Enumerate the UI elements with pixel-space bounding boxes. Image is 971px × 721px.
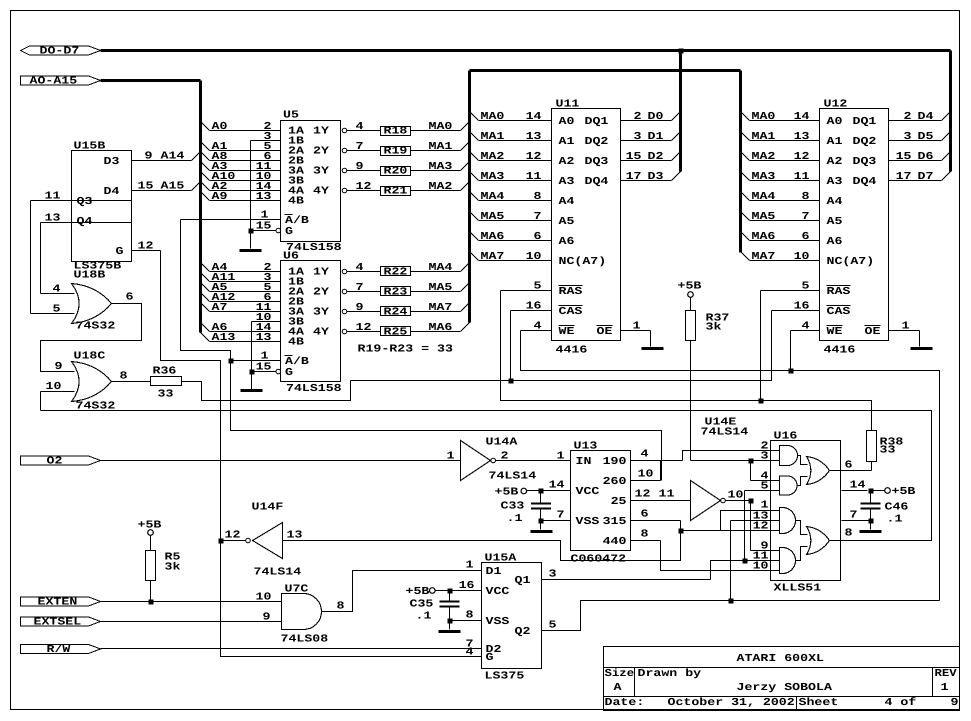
bus flag DO-D7 [21, 46, 101, 58]
wire U11 MA7 pin 10 [470, 251, 552, 263]
wire C46 ground stem [870, 521, 872, 530]
wire R18 to MA bus MA0 [411, 121, 470, 133]
svg-text:R20: R20 [384, 166, 408, 178]
wire U5 input A8 pin 6 [201, 151, 281, 163]
svg-text:6: 6 [802, 231, 810, 243]
svg-text:.1: .1 [887, 514, 903, 526]
wire R25 to MA bus MA6 [411, 322, 470, 334]
wire AND C to OR F [796, 521, 808, 535]
power +5B R5 [138, 520, 163, 536]
wire R24 to MA bus MA7 [411, 302, 470, 314]
wire R36 to CAS line [182, 381, 351, 401]
wire U12 MA3 pin 11 [741, 171, 820, 183]
svg-text:CAS: CAS [559, 306, 584, 318]
node WE junction U12 [789, 369, 794, 374]
wire U6 input A4 pin 2 [201, 262, 281, 274]
wire U11 DQ2 to D1 [621, 131, 681, 143]
svg-text:MA1: MA1 [752, 131, 776, 143]
wire U15A Q2 pin 5 [542, 601, 940, 632]
resistor R19 [381, 146, 411, 158]
svg-text:12: 12 [635, 489, 651, 501]
svg-text:XLLS51: XLLS51 [774, 583, 822, 595]
svg-text:440: 440 [603, 536, 627, 548]
wire U11 MA1 pin 13 [470, 131, 552, 143]
wire U15B D4 to A15 [132, 181, 200, 193]
svg-text:A0: A0 [559, 116, 575, 128]
svg-text:Date:: Date: [605, 697, 645, 709]
svg-text:MA3: MA3 [481, 171, 505, 183]
svg-text:D6: D6 [918, 151, 934, 163]
capacitor C46 [861, 491, 909, 526]
wire R37 to XLLS51 pin3 [690, 341, 692, 461]
wire R21 to MA bus MA2 [411, 181, 470, 193]
wire pin1 net to U13 [231, 361, 662, 481]
svg-text:MA5: MA5 [481, 211, 505, 223]
wire U5 output 12 to R21 [342, 181, 380, 193]
wire D bus vertical left [679, 51, 682, 172]
inverter U14F [225, 502, 303, 579]
svg-text:33: 33 [880, 445, 896, 457]
svg-text:11: 11 [45, 191, 61, 203]
svg-text:A5: A5 [559, 216, 575, 228]
ground C33 [531, 530, 553, 533]
capacitor C33 [501, 491, 552, 526]
wire U18C pin10 input [41, 381, 75, 411]
wire XLLS51 pin5 [745, 481, 780, 561]
wire R19 to MA bus MA1 [411, 141, 470, 153]
svg-text:8: 8 [120, 371, 128, 383]
ground U12 OE [911, 347, 933, 350]
svg-text:3k: 3k [706, 322, 723, 334]
wire XLLS51 pin12 [681, 521, 780, 533]
svg-text:MA6: MA6 [429, 322, 453, 334]
wire U11 DQ1 to D0 [621, 111, 681, 123]
svg-text:+5B: +5B [406, 586, 431, 598]
node G net junction at U14F [219, 539, 224, 544]
svg-text:9: 9 [55, 361, 63, 373]
svg-text:R19: R19 [384, 146, 408, 158]
svg-text:12: 12 [526, 151, 542, 163]
svg-text:260: 260 [603, 476, 627, 488]
wire U11 DQ3 to D2 [621, 151, 681, 163]
svg-text:MA4: MA4 [752, 191, 777, 203]
svg-text:1: 1 [557, 451, 565, 463]
wire U12 WE pin 4 [791, 321, 820, 333]
wire U16 pin14 [842, 480, 874, 494]
wire U14E out to XLLS51 pins [751, 500, 780, 553]
latch U15B [72, 141, 132, 273]
svg-text:1: 1 [941, 682, 949, 694]
ground C46 [860, 530, 882, 533]
svg-text:D5: D5 [918, 131, 934, 143]
svg-text:74S32: 74S32 [76, 321, 116, 333]
wire U5 input A10 pin 10 [201, 171, 281, 183]
wire U12 WE drop [790, 331, 792, 371]
svg-text:U12: U12 [824, 99, 848, 111]
resistor R18 [381, 126, 411, 138]
wire U16 pin8 out [830, 528, 853, 541]
wire U12 OE pin 1 [889, 321, 920, 347]
svg-text:7: 7 [356, 141, 364, 153]
wire U11 MA4 pin 8 [470, 191, 552, 203]
wire U6 A/B pin 1 [231, 351, 281, 363]
svg-text:15: 15 [138, 181, 154, 193]
svg-text:D3: D3 [104, 156, 120, 168]
svg-text:A4: A4 [559, 196, 576, 208]
svg-text:14: 14 [794, 111, 811, 123]
svg-text:10: 10 [638, 469, 654, 481]
and-gate U7C [281, 584, 329, 646]
wire U5 input A3 pin 11 [201, 161, 281, 173]
svg-text:2Y: 2Y [313, 286, 330, 298]
ground C35 [439, 630, 461, 633]
wire U14A out to U13 [496, 451, 571, 463]
wire U6 input A11 pin 3 [201, 272, 281, 284]
wire U12 RAS drop [760, 291, 762, 401]
latch U15A [482, 553, 542, 683]
svg-text:C060472: C060472 [571, 554, 627, 566]
svg-text:A3: A3 [827, 176, 843, 188]
svg-text:R36: R36 [153, 366, 177, 378]
wire U6 input A5 pin 5 [201, 282, 281, 294]
svg-text:O2: O2 [47, 456, 63, 468]
svg-text:74LS14: 74LS14 [489, 471, 537, 483]
wire C35 ground stem [449, 621, 451, 630]
wire XLLS51 pin3 [691, 451, 780, 464]
resistor R38 [867, 431, 904, 462]
ground U5 [240, 249, 262, 252]
inverter U14A [461, 437, 537, 483]
gate-array U16 XLLS51 [771, 431, 841, 595]
svg-text:VCC: VCC [486, 586, 511, 598]
svg-text:A9: A9 [212, 191, 228, 203]
wire U11 MA2 pin 12 [470, 151, 552, 163]
node D-bus junction at x=680 [679, 49, 684, 54]
svg-text:G: G [486, 652, 494, 664]
svg-text:MA3: MA3 [429, 161, 453, 173]
svg-text:R25: R25 [384, 327, 408, 339]
wire U12 MA4 pin 8 [741, 191, 820, 203]
wire U12 MA1 pin 13 [741, 131, 820, 143]
svg-text:D3: D3 [648, 171, 664, 183]
wire U12 DQ2 to D5 [889, 131, 951, 143]
svg-text:5: 5 [802, 281, 810, 293]
svg-text:3: 3 [549, 569, 557, 581]
svg-text:11: 11 [526, 171, 542, 183]
svg-text:10: 10 [794, 251, 810, 263]
svg-text:14: 14 [526, 111, 543, 123]
wire U12 CAS pin 16 [772, 301, 820, 313]
wire U6 output 4 to R22 [342, 262, 380, 274]
svg-text:12: 12 [225, 530, 241, 542]
wire U15A G pin 4 label [466, 647, 475, 659]
svg-text:13: 13 [256, 191, 272, 203]
wire MA bus horizontal [470, 69, 741, 72]
svg-text:4: 4 [534, 321, 543, 333]
svg-text:1: 1 [902, 321, 910, 333]
svg-text:13: 13 [794, 131, 810, 143]
svg-text:.1: .1 [507, 513, 523, 525]
svg-text:A6: A6 [559, 236, 575, 248]
svg-text:U13: U13 [574, 441, 598, 453]
bus flag AO-A15 [21, 76, 101, 88]
svg-text:G: G [116, 246, 124, 258]
wire D bus vertical right [949, 51, 952, 172]
svg-text:14: 14 [850, 480, 867, 492]
flag O2 [21, 456, 101, 468]
svg-text:MA5: MA5 [752, 211, 776, 223]
wire WE line [521, 331, 940, 601]
svg-text:MA6: MA6 [481, 231, 505, 243]
svg-text:4: 4 [466, 647, 475, 659]
svg-text:C33: C33 [501, 501, 525, 513]
svg-text:74LS14: 74LS14 [701, 427, 749, 439]
svg-text:A3: A3 [559, 176, 575, 188]
wire U6 3B ground feed [251, 322, 253, 390]
node CAS junction U11 [509, 379, 514, 384]
power +5B C35 [406, 586, 436, 598]
wire U5 output 9 to R20 [342, 161, 380, 173]
svg-text:11: 11 [659, 489, 675, 501]
svg-text:5: 5 [761, 481, 769, 493]
svg-text:D4: D4 [104, 186, 121, 198]
svg-text:MA6: MA6 [752, 231, 776, 243]
svg-text:4B: 4B [288, 336, 305, 348]
wire U11 MA3 pin 11 [470, 171, 552, 183]
svg-text:R19-R23 = 33: R19-R23 = 33 [358, 344, 453, 356]
svg-text:U16: U16 [774, 431, 798, 443]
svg-text:1Y: 1Y [313, 266, 330, 278]
wire U15B Q4 pin 13 [41, 213, 132, 225]
svg-text:A7: A7 [212, 302, 228, 314]
wire U12 MA0 pin 14 [741, 111, 820, 123]
svg-text:14: 14 [549, 480, 566, 492]
wire U16 pin6 out [830, 460, 872, 472]
svg-text:7: 7 [802, 211, 810, 223]
svg-text:17: 17 [626, 171, 642, 183]
svg-text:R/W: R/W [47, 644, 72, 656]
svg-text:October 31, 2002: October 31, 2002 [668, 697, 795, 709]
wire U15B G pin 12 [132, 241, 161, 253]
wire U12 DQ3 to D6 [889, 151, 951, 163]
svg-text:12: 12 [138, 241, 154, 253]
svg-text:6: 6 [534, 231, 542, 243]
svg-text:R21: R21 [384, 186, 408, 198]
svg-text:MA7: MA7 [429, 302, 453, 314]
svg-text:A2: A2 [827, 156, 843, 168]
svg-text:U6: U6 [283, 251, 299, 263]
svg-text:4416: 4416 [556, 345, 588, 357]
svg-text:A0: A0 [212, 121, 228, 133]
wire U5 G pin 15 [249, 221, 281, 234]
svg-text:2Y: 2Y [313, 145, 330, 157]
svg-text:U15B: U15B [74, 141, 107, 153]
svg-text:MA5: MA5 [429, 282, 453, 294]
power +5B U16 [871, 486, 917, 498]
wire U11 MA0 pin 14 [470, 111, 552, 123]
wire U11 DQ4 to D3 [621, 171, 681, 183]
svg-text:6: 6 [641, 509, 649, 521]
wire U7C out to U15A D1 [322, 560, 482, 613]
wire D bus horizontal [101, 49, 951, 52]
svg-text:4: 4 [53, 284, 62, 296]
svg-text:3k: 3k [165, 562, 182, 574]
svg-text:8: 8 [534, 191, 542, 203]
wire EXTEN to U7C [101, 592, 282, 604]
svg-text:10: 10 [46, 381, 62, 393]
svg-text:D1: D1 [648, 131, 664, 143]
wire U14F output [283, 531, 681, 561]
wire U6 output 12 to R25 [342, 322, 380, 334]
wire U12 MA6 pin 6 [741, 231, 820, 243]
or-gate U16 F [807, 527, 830, 555]
svg-text:7: 7 [557, 510, 565, 522]
svg-text:5: 5 [549, 620, 557, 632]
flag EXTEN [21, 597, 101, 609]
svg-text:MA7: MA7 [481, 251, 505, 263]
svg-text:4Y: 4Y [313, 326, 330, 338]
svg-text:10: 10 [728, 490, 744, 502]
wire U18C pin9 label [55, 361, 63, 373]
svg-text:EXTEN: EXTEN [38, 597, 78, 609]
svg-text:DQ2: DQ2 [585, 136, 609, 148]
wire XLLS51 pin8 line [41, 411, 932, 541]
wire O2 to U14A [101, 451, 461, 463]
svg-text:10: 10 [256, 592, 272, 604]
svg-text:4: 4 [356, 121, 365, 133]
wire U18C out 8 to R36 [112, 371, 151, 383]
svg-text:RAS: RAS [559, 286, 584, 298]
svg-text:NC(A7): NC(A7) [559, 256, 607, 268]
svg-text:7: 7 [850, 510, 858, 522]
svg-text:4 of: 4 of [885, 697, 917, 709]
svg-text:U14F: U14F [252, 502, 284, 514]
svg-text:MA2: MA2 [481, 151, 505, 163]
wire U11 CAS pin 16 [511, 301, 552, 313]
wire EXTSEL to U7C [101, 612, 282, 624]
wire U6 G pin 15 [250, 362, 281, 375]
flag R/W [21, 644, 101, 656]
svg-text:MA7: MA7 [752, 251, 776, 263]
svg-text:.1: .1 [416, 611, 432, 623]
svg-text:2: 2 [904, 111, 912, 123]
svg-text:1: 1 [447, 451, 455, 463]
svg-text:9: 9 [263, 612, 271, 624]
svg-text:DO-D7: DO-D7 [40, 46, 80, 58]
wire XLLS51 pin4 tie [751, 461, 780, 483]
svg-text:R22: R22 [384, 267, 408, 279]
svg-text:U18C: U18C [74, 351, 107, 363]
wire U5 input A9 pin 13 [201, 191, 281, 203]
wire U5 A/B pin 1 [181, 210, 281, 222]
svg-text:U14A: U14A [486, 437, 519, 449]
svg-text:5: 5 [53, 304, 61, 316]
wire U11 CAS drop [510, 311, 512, 381]
svg-text:R18: R18 [384, 126, 408, 138]
svg-text:8: 8 [802, 191, 810, 203]
mux U6 [281, 251, 342, 396]
resistor R22 [381, 267, 411, 279]
wire R5 to EXTEN [149, 581, 154, 605]
wire U5 output 7 to R19 [342, 141, 380, 153]
svg-text:7: 7 [534, 211, 542, 223]
svg-text:74LS158: 74LS158 [286, 383, 342, 395]
svg-text:CAS: CAS [827, 306, 852, 318]
svg-text:74LS08: 74LS08 [281, 634, 329, 646]
mux U5 [281, 110, 342, 255]
svg-text:D0: D0 [648, 111, 664, 123]
wire A bus horizontal [101, 79, 201, 82]
svg-text:13: 13 [45, 213, 61, 225]
dram U12 [820, 99, 889, 357]
svg-text:Size: Size [605, 668, 635, 680]
svg-text:MA2: MA2 [752, 151, 776, 163]
wire U5 input 1B pin 3 [251, 131, 281, 143]
svg-text:A2: A2 [559, 156, 575, 168]
wire XLLS51 pin11 [711, 551, 780, 580]
svg-text:10: 10 [526, 251, 542, 263]
svg-text:33: 33 [158, 389, 174, 401]
svg-text:3: 3 [904, 131, 912, 143]
node RAS junction U12 [759, 399, 764, 404]
svg-text:U15A: U15A [485, 553, 518, 565]
wire U13 pin4 [631, 449, 683, 461]
svg-text:A1: A1 [559, 136, 575, 148]
svg-text:4Y: 4Y [313, 185, 330, 197]
wire U12 MA2 pin 12 [741, 151, 820, 163]
wire R23 to MA bus MA5 [411, 282, 470, 294]
or-gate U16 E [807, 457, 830, 485]
wire R20 to MA bus MA3 [411, 161, 470, 173]
resistor R20 [381, 166, 411, 178]
svg-text:12: 12 [356, 322, 372, 334]
svg-text:15: 15 [256, 221, 272, 233]
or-gate U18B [72, 270, 116, 333]
ground U11 OE [642, 347, 664, 350]
svg-text:9: 9 [356, 161, 364, 173]
svg-text:4: 4 [641, 449, 650, 461]
wire U5 output 4 to R18 [342, 121, 380, 133]
wire U12 RAS pin 5 [761, 281, 820, 293]
svg-text:LS375: LS375 [485, 671, 525, 683]
svg-text:13: 13 [526, 131, 542, 143]
wire U14E out [726, 499, 754, 504]
wire U5 pin1 net [181, 220, 231, 361]
svg-text:ATARI 600XL: ATARI 600XL [737, 653, 825, 665]
svg-text:DQ3: DQ3 [585, 156, 609, 168]
svg-text:16: 16 [459, 580, 475, 592]
svg-text:EXTSEL: EXTSEL [34, 617, 82, 629]
svg-text:15: 15 [626, 151, 642, 163]
wire U13 pin6 [631, 509, 681, 531]
wire U13 pin10 [631, 461, 661, 481]
svg-text:U11: U11 [556, 99, 580, 111]
wire MA bus vertical right [739, 71, 742, 253]
svg-text:Q1: Q1 [515, 575, 531, 587]
node Q2 line junction [729, 599, 734, 604]
svg-text:13: 13 [753, 511, 769, 523]
wire U13 pin4 jog to XLLS51 pin2 [683, 441, 780, 461]
svg-text:IN: IN [576, 456, 592, 468]
wire AND D to OR F [796, 547, 808, 561]
wire U13 pin8 [631, 529, 780, 573]
svg-text:3Y: 3Y [313, 165, 330, 177]
svg-text:16: 16 [794, 301, 810, 313]
svg-text:11: 11 [753, 551, 769, 563]
wire U15B D3 to A14 [132, 151, 200, 163]
wire U12 DQ4 to D7 [889, 171, 951, 183]
svg-text:Q2: Q2 [515, 626, 531, 638]
